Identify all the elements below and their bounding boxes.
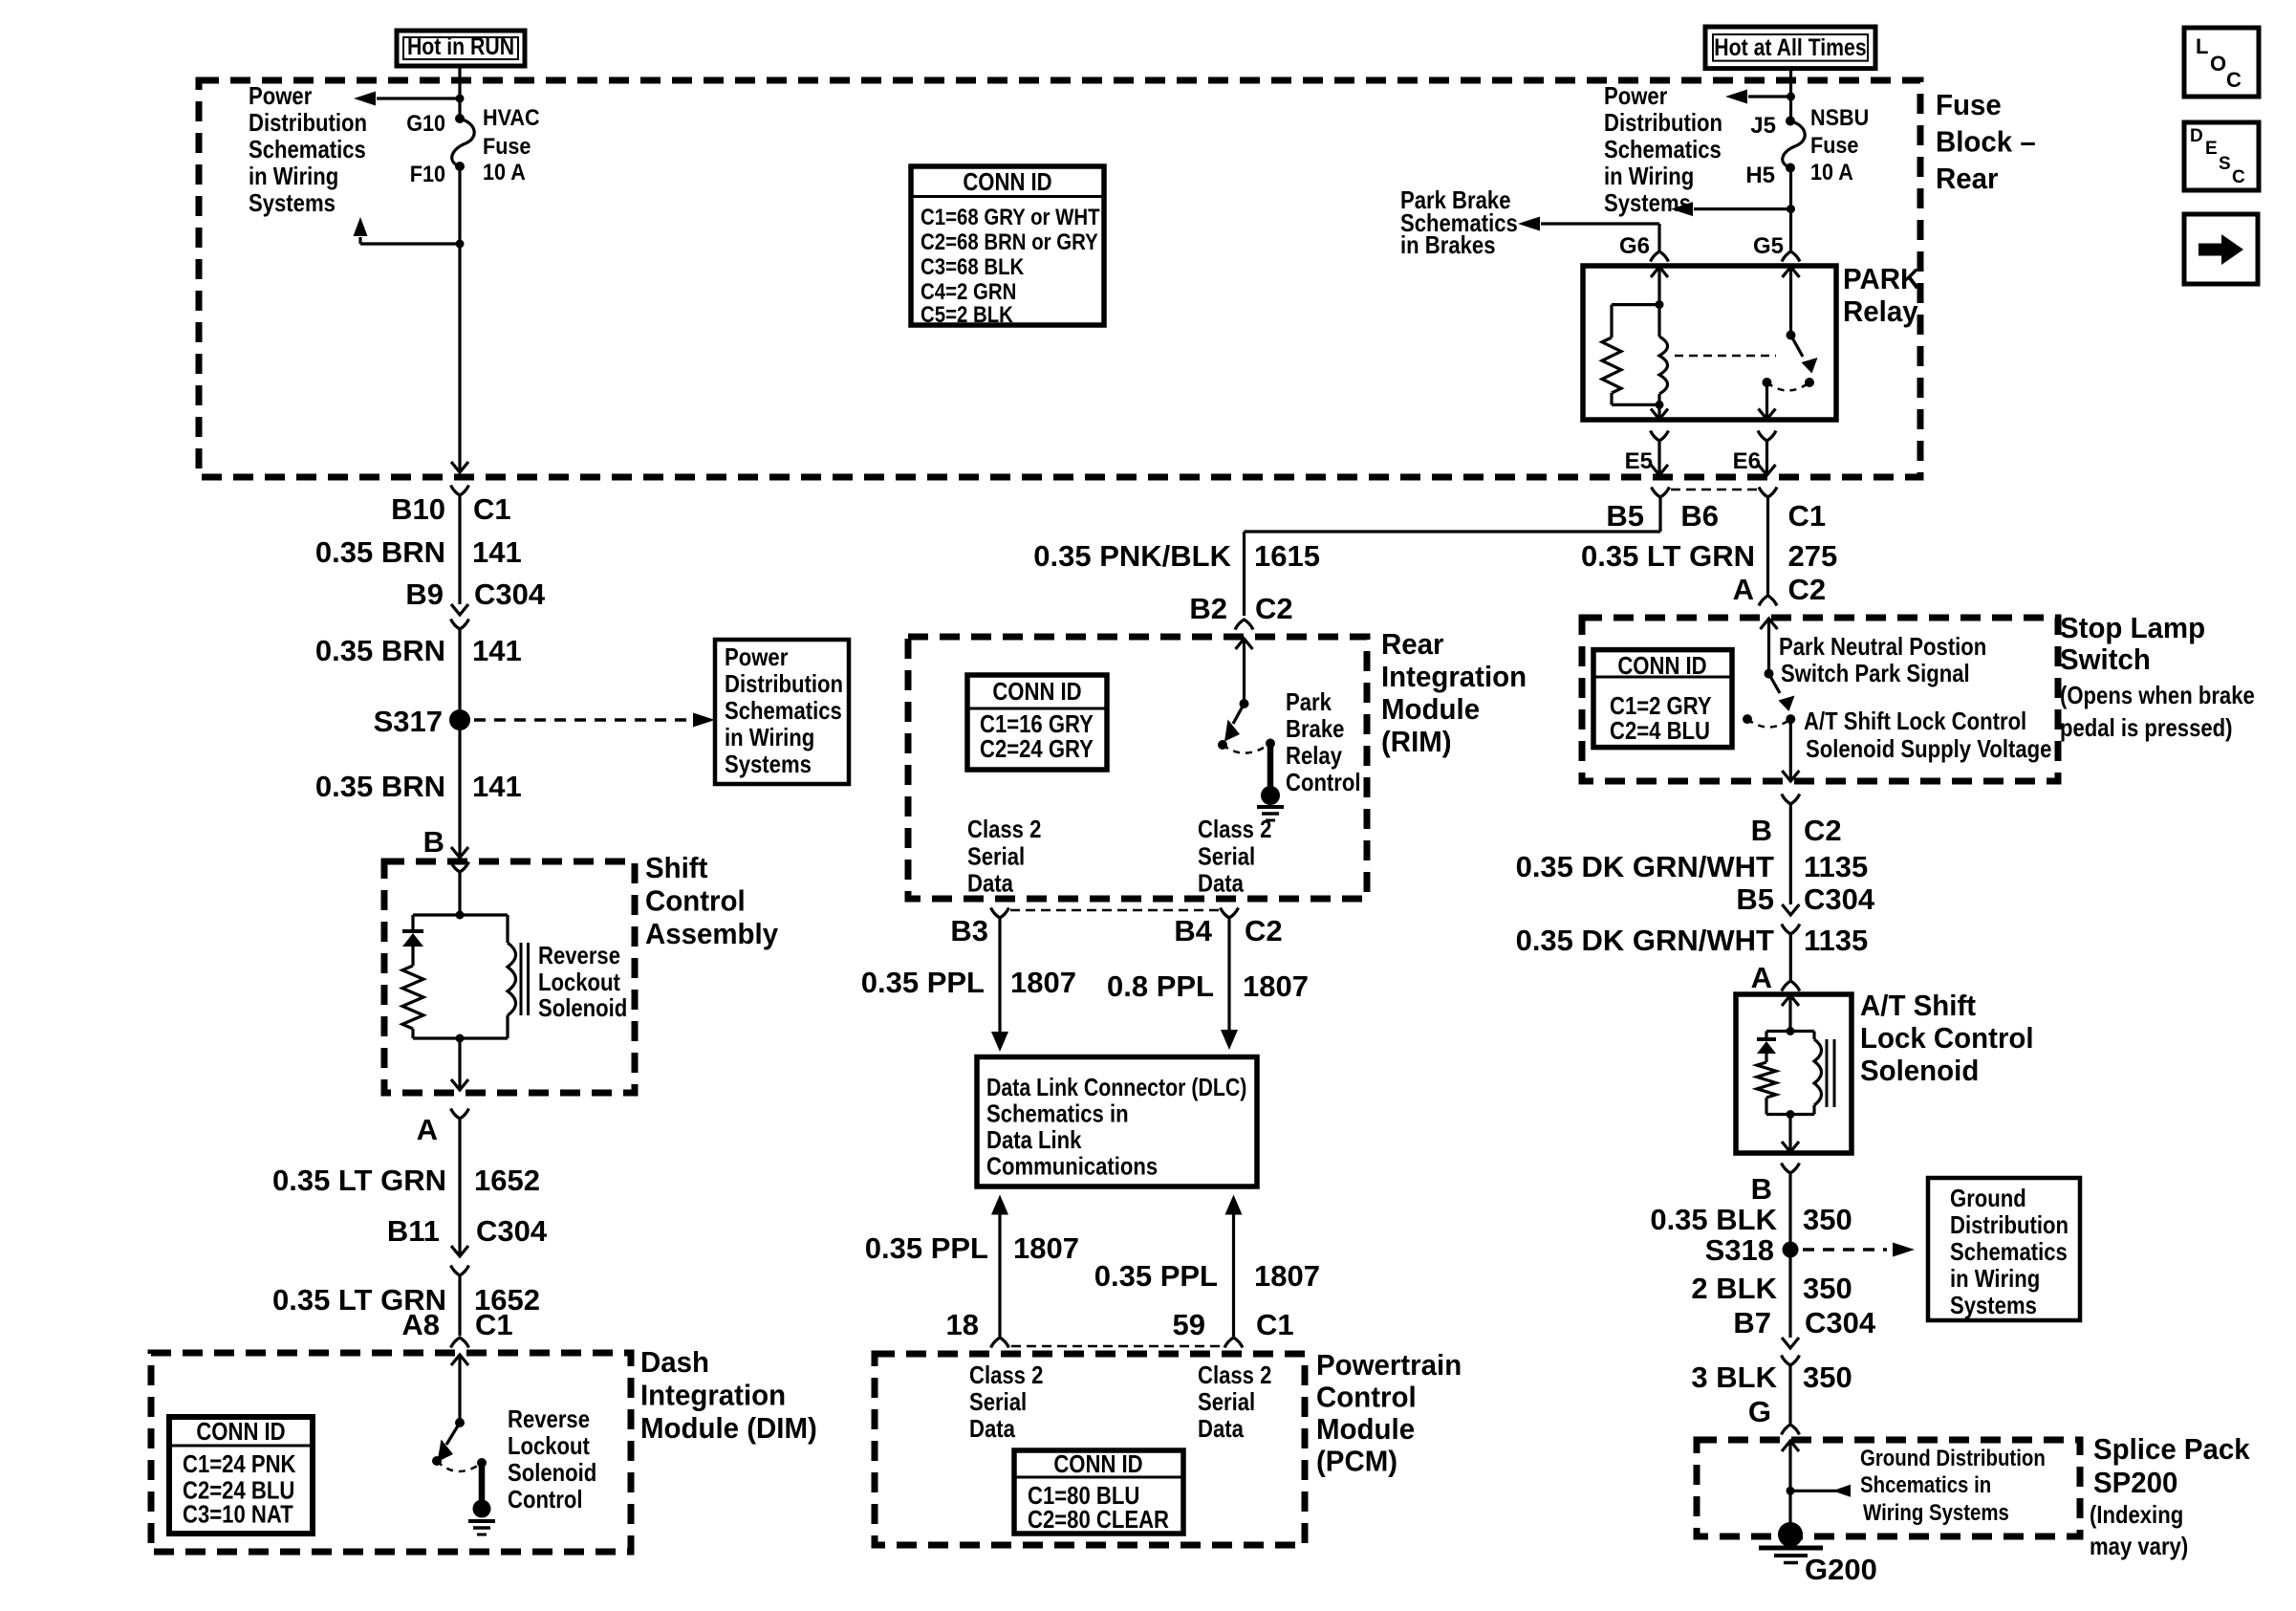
svg-text:C1=24 PNK: C1=24 PNK [183,1449,296,1478]
svg-text:Reverse: Reverse [538,941,620,969]
svg-text:J5: J5 [1750,113,1776,139]
wire F10 down [458,166,461,244]
label 0.35 PPL (B3) [861,966,985,999]
wire 350 segment 1 [1788,1173,1791,1250]
svg-text:3 BLK: 3 BLK [1691,1361,1777,1394]
connector arrow inside stop lamp switch [1761,619,1778,629]
svg-text:0.35 DK GRN/WHT: 0.35 DK GRN/WHT [1516,850,1774,883]
svg-text:Class 2: Class 2 [969,1361,1043,1389]
label C304 [474,577,546,611]
label C1 [473,492,511,526]
svg-text:Reverse: Reverse [508,1404,590,1433]
svg-text:Schematics: Schematics [249,135,366,163]
label: Park Neutral Postion Switch Park Signal [1779,632,1986,687]
label 1135 (2) [1804,924,1868,957]
label B10 [391,492,445,526]
A/T solenoid coil [1814,1032,1822,1115]
relay resistor branch [1602,305,1621,405]
wire to reverse lockout solenoid [458,872,461,915]
in-line connector C304 pin B11 [451,1246,469,1275]
wire 350 segment 2 [1788,1250,1791,1338]
label 141 (3) [472,770,522,803]
legend box LOC [2184,28,2259,97]
in-line connector C304 pin B7 [1782,1338,1800,1365]
connector fork pin B4 below RIM [1221,908,1239,919]
svg-text:C304: C304 [476,1214,548,1248]
svg-text:B2: B2 [1189,592,1227,625]
module title: Dash Integration Module (DIM) [640,1345,817,1445]
svg-text:C2: C2 [1245,914,1283,947]
arrow to Park Brake Schematics (short) [1671,202,1791,216]
svg-text:Control: Control [508,1485,583,1513]
svg-text:B5: B5 [1606,499,1644,533]
svg-text:1807: 1807 [1010,966,1076,999]
label B5 (C304) [1736,882,1774,916]
label 0.35 LT GRN [272,1164,446,1197]
svg-text:Module: Module [1316,1412,1415,1446]
wire 275 to stop lamp switch [1766,497,1769,596]
label C2 (stop lamp exit) [1804,814,1842,847]
svg-text:Park: Park [1286,687,1332,716]
svg-text:A/T Shift: A/T Shift [1860,989,1976,1022]
svg-text:0.35 PPL: 0.35 PPL [861,966,985,999]
svg-text:0.35 BRN: 0.35 BRN [315,634,445,667]
svg-text:C4=2 GRN: C4=2 GRN [921,279,1016,305]
connector body dashed link B5-B6 [1671,489,1758,491]
svg-text:C304: C304 [1804,882,1875,916]
module title: Stop Lamp Switch [2060,611,2255,742]
svg-text:B3: B3 [950,914,988,947]
svg-text:E5: E5 [1625,448,1653,474]
svg-text:(Indexing: (Indexing [2090,1500,2183,1529]
label 141 (2) [472,634,522,667]
pin label B (shift control) [423,825,444,859]
RIM switch dashed throw arc [1223,744,1270,753]
svg-text:Integration: Integration [1381,660,1527,693]
connector arrow at shift control pin B [451,847,468,858]
connector C1 pin A8 fork into DIM [451,1338,469,1348]
wire resistor to bottom [411,1029,414,1038]
power source label box: Hot at All Times [1705,27,1875,69]
svg-text:Schematics in: Schematics in [986,1099,1129,1128]
dashed reference arrow from S318 [1803,1243,1915,1257]
wire 1652 segment 1 [458,1119,461,1254]
svg-text:B4: B4 [1174,914,1212,947]
svg-text:2 BLK: 2 BLK [1691,1272,1777,1305]
connector fork G5 into relay [1782,251,1800,262]
svg-text:1807: 1807 [1013,1231,1079,1265]
svg-text:Lock Control: Lock Control [1860,1021,2034,1055]
stop lamp switch blade [1769,674,1795,711]
svg-text:141: 141 [472,770,522,803]
connector arrow inside RIM [1236,639,1253,649]
wire down to fuse block exit [458,244,461,472]
svg-text:NSBU: NSBU [1810,105,1869,131]
svg-text:Schematics: Schematics [1950,1237,2068,1266]
label C304 (B11) [476,1214,548,1248]
svg-text:Lockout: Lockout [538,968,620,996]
pin label G10 [406,111,445,137]
connector arrow relay pin E6 [1759,409,1776,420]
A/T diode [1757,1032,1776,1055]
relay box: PARK Relay [1583,266,1836,420]
relay switch pivot [1787,331,1796,340]
label E6 [1733,448,1761,474]
svg-text:in Wiring: in Wiring [249,162,338,190]
wire stop lamp to pin B [1789,719,1792,781]
svg-text:Fuse: Fuse [1810,133,1858,159]
svg-text:Schematics: Schematics [725,696,842,725]
pin B fork inside shift control [451,862,469,873]
svg-text:141: 141 [472,535,522,569]
svg-text:18: 18 [946,1308,979,1341]
label S317 [374,705,443,738]
label 0.35 LT GRN (2) [272,1283,446,1317]
stop lamp left contact [1743,714,1752,724]
conn id table (PCM) [1014,1449,1183,1534]
label C2 (stop lamp) [1788,573,1827,606]
connector C2 pin B2 fork into RIM [1235,620,1253,630]
svg-text:Integration: Integration [640,1379,786,1412]
value label HVAC Fuse 10 A [483,105,540,185]
DIM switch right contact [477,1458,487,1468]
label: Reverse Lockout Solenoid [538,941,627,1022]
wire 1615 horizontal from B5 [1245,530,1661,533]
label: Park Brake Relay Control [1286,687,1361,796]
svg-text:G6: G6 [1619,233,1650,259]
label B4 [1174,914,1212,947]
relay switch blade [1791,336,1818,374]
svg-text:59: 59 [1173,1308,1205,1341]
svg-text:B11: B11 [387,1214,440,1248]
label 1652 (2) [474,1283,540,1317]
svg-text:SP200: SP200 [2093,1466,2177,1499]
svg-text:Data: Data [969,1414,1015,1443]
label: Fuse Block - Rear [1936,88,2036,195]
junction to power distribution arrow (right) [1787,93,1795,101]
svg-text:Fuse: Fuse [483,134,531,160]
wire relay switch to E6 [1765,382,1768,420]
RIM switch left contact [1218,740,1227,750]
wire 1807 B4 to DLC [1221,918,1238,1050]
label B (A/T exit) [1751,1172,1772,1206]
in-line connector C304 pin B5 (right) [1782,904,1800,934]
RIM switch right contact [1266,739,1275,749]
svg-text:in Wiring: in Wiring [1604,162,1694,190]
label C304 (B7) [1805,1306,1876,1339]
connector arrow inside splice pack [1782,1441,1799,1451]
svg-text:Distribution: Distribution [249,108,367,137]
wire 1807 B3 to DLC [991,918,1008,1052]
component box: A/T Shift Lock Control Solenoid [1736,994,1852,1153]
connector arrow at boundary E6 [1759,465,1776,475]
pin label F10 [410,162,445,187]
svg-text:Solenoid Supply Voltage: Solenoid Supply Voltage [1806,734,2051,763]
A/T resistor [1757,1052,1776,1115]
node: relay coil top [1656,300,1664,309]
svg-text:Power: Power [725,642,788,671]
label 0.35 BRN [315,535,445,569]
svg-text:C2=24 GRY: C2=24 GRY [980,734,1094,763]
label 0.35 PNK/BLK [1033,539,1231,573]
svg-text:Systems: Systems [725,750,812,778]
svg-text:C1: C1 [1256,1308,1294,1341]
svg-text:A/T Shift Lock Control: A/T Shift Lock Control [1804,707,2026,735]
label 141 [472,535,522,569]
svg-text:C2=68 BRN or GRY: C2=68 BRN or GRY [921,229,1098,255]
svg-text:G10: G10 [406,111,445,137]
svg-text:10 A: 10 A [483,160,526,185]
label 0.35 BRN (2) [315,634,445,667]
svg-text:PARK: PARK [1843,262,1921,295]
svg-text:275: 275 [1788,539,1838,573]
svg-text:C1=68 GRY or WHT: C1=68 GRY or WHT [921,205,1100,230]
module box: Splice Pack SP200 [1697,1440,2080,1536]
svg-text:1615: 1615 [1254,539,1320,573]
wire A/T solenoid to pin B [1788,1115,1791,1153]
label 3 BLK [1691,1361,1777,1394]
svg-text:G: G [1748,1395,1771,1428]
svg-text:Rear: Rear [1381,627,1444,661]
svg-text:C2: C2 [1255,592,1293,625]
connector fork pin B below stop lamp [1782,795,1800,805]
svg-text:Switch Park Signal: Switch Park Signal [1781,659,1970,687]
label 0.35 PPL (18) [865,1231,988,1265]
svg-text:B9: B9 [405,577,444,611]
ground symbol G200 [1759,1548,1823,1563]
label: Ground Distribution Shcematics in Wiring Systems [1860,1446,2046,1526]
wire to ground distribution note [1790,1485,1851,1497]
svg-text:141: 141 [472,634,522,667]
ground ball (DIM) [473,1500,491,1518]
svg-text:Class 2: Class 2 [1198,815,1271,843]
stop lamp switch pivot [1765,669,1774,679]
connector arrow A/T solenoid pin B [1782,1142,1799,1152]
label 1807 (B4) [1243,969,1309,1003]
relay switch dashed throw arc [1767,382,1810,391]
svg-text:C304: C304 [474,577,546,611]
conn id table (RIM) [967,675,1107,770]
wire junction to fuse G10 [458,98,461,119]
resistor R1 (solenoid clamp) [402,966,423,1029]
reference box: Ground Distribution Schematics in Wiring Systems [1928,1178,2080,1320]
reference box: Data Link Connector (DLC) [977,1057,1257,1187]
svg-text:Wiring Systems: Wiring Systems [1863,1500,2009,1526]
svg-text:Splice Pack: Splice Pack [2093,1432,2250,1466]
svg-text:C: C [2232,167,2245,187]
wire 1652 segment 2 [458,1275,461,1336]
svg-text:Assembly: Assembly [645,917,779,950]
label C1 (B6) [1788,499,1827,533]
connector arrow shift control pin A [451,1079,468,1090]
svg-text:B: B [1751,814,1772,847]
A/T solenoid loop bottom [1766,1113,1814,1116]
svg-text:C3=10 NAT: C3=10 NAT [183,1500,293,1529]
wire E6 to fuse block edge [1765,441,1768,475]
module title: Powertrain Control Module (PCM) [1316,1348,1462,1478]
svg-text:Park Neutral Postion: Park Neutral Postion [1779,632,1986,661]
svg-text:may vary): may vary) [2090,1532,2188,1560]
label B7 [1733,1306,1771,1339]
connector arrow inside DIM [451,1355,468,1365]
connector fork G6 into relay [1651,251,1669,262]
svg-text:Systems: Systems [1950,1291,2037,1319]
svg-text:E: E [2205,139,2218,159]
label B11 [387,1214,440,1248]
label C1 (A8) [475,1308,513,1341]
svg-text:C1: C1 [475,1308,513,1341]
svg-text:Data Link Connector (DLC): Data Link Connector (DLC) [986,1073,1246,1101]
connector C2 pin A fork into stop lamp switch [1759,596,1777,606]
relay mechanical dashed link [1675,355,1776,358]
svg-text:1135: 1135 [1804,924,1868,957]
solenoid loop bottom wire [413,1036,508,1039]
svg-text:Distribution: Distribution [1604,108,1722,137]
label S318 [1705,1233,1774,1267]
wire E5 to fuse block edge [1657,441,1660,475]
label A8 [401,1308,440,1341]
svg-text:Relay: Relay [1843,294,1918,328]
svg-text:C2: C2 [1788,573,1827,606]
wire solenoid to pin A [458,1038,461,1090]
svg-text:0.35 DK GRN/WHT: 0.35 DK GRN/WHT [1516,924,1774,957]
label G6 [1619,233,1650,259]
svg-text:Class 2: Class 2 [1198,1361,1271,1389]
fuse NSBU 10 A [1783,117,1805,173]
svg-text:H5: H5 [1745,163,1775,188]
label B6 [1680,499,1719,533]
svg-text:CONN ID: CONN ID [1617,651,1706,680]
svg-text:S317: S317 [374,705,443,738]
wire 1135 segment 2 [1789,934,1792,980]
svg-text:Powertrain: Powertrain [1316,1348,1462,1382]
module box: Dash Integration Module [151,1353,631,1552]
connector arrow stop lamp pin B [1782,771,1799,781]
svg-text:Lockout: Lockout [508,1431,590,1460]
wire diode to resistor [411,947,414,966]
wire into A/T solenoid [1788,995,1791,1032]
svg-text:Shcematics in: Shcematics in [1860,1472,1991,1498]
node: solenoid top junction [456,911,465,920]
svg-text:Control: Control [1286,768,1361,796]
svg-text:B: B [1751,1172,1772,1206]
label E5 [1625,448,1653,474]
svg-text:Data: Data [1198,869,1244,898]
label: Reverse Lockout Solenoid Control [508,1404,596,1513]
svg-text:Hot at All Times: Hot at All Times [1714,34,1866,61]
label 18 [946,1308,979,1341]
connector arrow at boundary E5 [1651,465,1668,475]
svg-text:Control: Control [1316,1381,1417,1414]
connector arrow inside relay G6 [1651,267,1668,277]
svg-text:Serial: Serial [1198,1387,1255,1416]
conn id table (DIM) [169,1417,313,1534]
arrow up-left to Power Distribution (return) [354,217,461,244]
relay coil loop top [1612,303,1659,306]
module box: Rear Integration Module [908,637,1367,899]
svg-text:O: O [2210,52,2226,76]
relay coil L (PARK relay) [1659,305,1668,405]
label 1615 [1254,539,1320,573]
relay switch NO contact [1805,378,1814,387]
label 0.35 DK GRN/WHT (2) [1516,924,1774,957]
svg-text:Data: Data [1198,1414,1244,1443]
label G200 [1805,1553,1877,1586]
node: solenoid bottom junction [456,1034,465,1043]
svg-text:C3=68 BLK: C3=68 BLK [921,254,1025,280]
connector fork pin A into A/T solenoid [1782,981,1800,991]
pin label H5 [1745,163,1775,188]
label: Park Brake Schematics in Brakes [1400,185,1518,259]
pin A fork below shift control [451,1109,469,1120]
wire contact to ground (DIM) [479,1463,486,1502]
node: relay coil bottom [1656,401,1664,409]
svg-text:A8: A8 [401,1308,440,1341]
component title: PARK Relay [1843,262,1921,328]
svg-text:A: A [1733,573,1754,606]
svg-text:Block –: Block – [1936,125,2036,159]
label A (stop lamp) [1733,573,1754,606]
in-line connector C304 pin B9 [451,604,469,629]
svg-text:Rear: Rear [1936,162,1999,195]
svg-text:1807: 1807 [1243,969,1309,1003]
svg-text:(Opens when brake: (Opens when brake [2060,681,2255,709]
svg-text:E6: E6 [1733,448,1761,474]
label B9 [405,577,444,611]
svg-text:in Wiring: in Wiring [1950,1264,2040,1293]
svg-text:Ground: Ground [1950,1184,2026,1212]
svg-text:Power: Power [249,81,312,110]
svg-text:G5: G5 [1753,233,1784,259]
diode D1 (clamp) [402,915,423,947]
svg-text:A: A [1751,961,1772,994]
wire 141 segment 2 [458,629,461,709]
label B5 [1606,499,1644,533]
stop lamp right contact [1786,714,1795,724]
label: Class 2 Serial Data (PCM left) [969,1361,1043,1443]
label: A/T Shift Lock Control Solenoid Supply Voltage [1804,707,2051,763]
legend box arrow [2184,214,2258,284]
wire H5 down to G5 [1789,168,1792,251]
wire contact to ground (RIM) [1267,744,1274,789]
label C2 (B4) [1245,914,1283,947]
connector arrow at fuse block boundary B10 [451,462,468,472]
svg-text:350: 350 [1803,1203,1852,1236]
svg-text:0.8 PPL: 0.8 PPL [1107,969,1214,1003]
svg-text:1807: 1807 [1254,1259,1320,1293]
label 350 (2) [1803,1272,1852,1305]
fuse F10 HVAC 10 A [452,114,474,171]
svg-text:Module: Module [1381,692,1480,726]
connector fork pin 18 at PCM [991,1338,1009,1348]
connector body dashed link 18-59 [1011,1345,1223,1348]
svg-text:S: S [2219,154,2231,174]
module box: Stop Lamp Switch [1582,618,2058,781]
svg-text:B5: B5 [1736,882,1774,916]
svg-text:Communications: Communications [986,1152,1158,1181]
svg-text:Class 2: Class 2 [967,815,1041,843]
svg-text:0.35 BRN: 0.35 BRN [315,770,445,803]
svg-text:Serial: Serial [967,842,1025,871]
wire G6 feed with arrow to brakes [1518,217,1659,251]
node: A/T solenoid bottom [1787,1110,1795,1119]
label 1807 (18) [1013,1231,1079,1265]
value label NSBU Fuse 10 A [1810,105,1869,185]
connector arrow relay pin E5 [1651,409,1668,420]
connector fork E6 below relay [1758,431,1776,442]
power source label box: Hot in RUN [397,31,525,66]
label 275 [1788,539,1838,573]
